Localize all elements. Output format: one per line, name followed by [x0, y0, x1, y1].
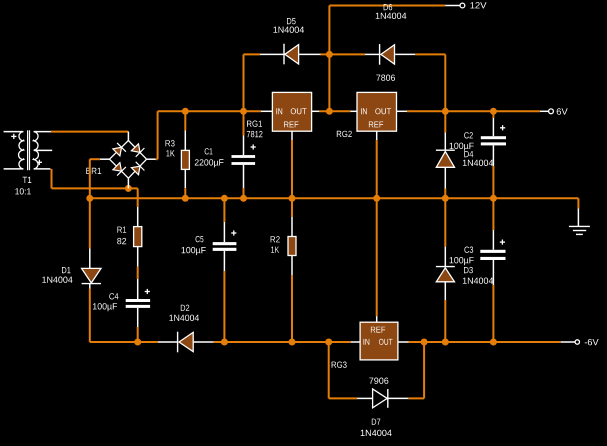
wire secondary bottom down	[51, 169, 53, 189]
wire D5 D6 line	[244, 53, 446, 55]
resistor R2 1K	[271, 198, 296, 342]
junction 12V column regulator rail	[326, 108, 333, 115]
capacitor C3 100uF	[450, 198, 506, 342]
wire negative rail right	[424, 341, 575, 343]
label T1	[23, 177, 32, 183]
wire D5 line left corner	[243, 54, 245, 111]
junction C5 bottom	[221, 339, 228, 346]
wire negative column down	[89, 159, 91, 198]
junction C1 top	[240, 108, 247, 115]
capacitor C2 100uF	[450, 111, 506, 198]
ground symbol	[569, 226, 590, 234]
wire ground rail	[90, 198, 579, 227]
junction negative column ground rail	[86, 195, 93, 202]
regulator RG3 7906	[360, 322, 398, 360]
diode D7 1N4004	[361, 389, 392, 436]
wire bridge right to corner	[156, 158, 158, 160]
junction C3 bottom	[490, 339, 497, 346]
diode D3 1N4004	[436, 198, 493, 342]
bridge rectifier BR1	[100, 132, 156, 189]
junction C4 bottom	[134, 339, 141, 346]
capacitor C5 100uF	[182, 198, 237, 342]
diode D5 1N4004	[273, 18, 304, 64]
regulator RG1 7812	[272, 92, 311, 131]
junction C1 bottom	[240, 195, 247, 202]
terminal -6V	[575, 339, 599, 345]
wire RG2 REF pin	[376, 131, 378, 198]
terminal 6V	[549, 108, 568, 114]
wire AC bottom horizontal	[52, 187, 138, 189]
wire RG3 out	[398, 341, 424, 343]
wire bridge left to negative column	[90, 158, 100, 160]
junction RG3 out D7 branch	[421, 339, 428, 346]
regulator RG2 7806	[357, 92, 397, 131]
junction R3 top	[182, 108, 189, 115]
terminal 12V	[460, 2, 487, 8]
junction 12V column on D5 line	[326, 51, 333, 58]
wire negative rail	[90, 341, 360, 343]
label BR1	[86, 168, 101, 174]
wire 12V line	[329, 5, 460, 7]
label 7806	[376, 75, 395, 81]
junction D3 bottom	[442, 339, 449, 346]
label RG1	[247, 121, 262, 127]
junction C5 top	[221, 195, 228, 202]
wire RG1 REF pin	[291, 131, 293, 198]
wire 12V column	[328, 6, 330, 112]
capacitor C4 100uF	[93, 279, 150, 342]
junction C2 top	[490, 108, 497, 115]
junction C2 bottom	[490, 195, 497, 202]
wire D7 branch right	[388, 342, 424, 398]
junction bridge bottom node	[125, 185, 132, 192]
junction RG1 REF rail	[289, 195, 296, 202]
resistor R3 1K	[166, 111, 190, 198]
diode D1 1N4004	[42, 198, 101, 342]
wire down to R1	[137, 188, 139, 226]
wire positive column up	[157, 111, 159, 159]
diode D2 1N4004	[169, 305, 199, 353]
wire secondary top to bridge	[51, 131, 128, 133]
wire REF rail to RG3	[376, 198, 378, 322]
wire D7 branch left	[329, 342, 373, 398]
wire D6 line right corner down	[444, 54, 446, 111]
T1 secondary top lead	[34, 131, 51, 133]
capacitor C1 2200uF	[195, 111, 256, 198]
T1 secondary bottom lead	[34, 168, 51, 170]
resistor R1 82	[117, 227, 142, 279]
label RG2	[337, 131, 352, 137]
label 7906	[369, 378, 388, 384]
T1 primary top lead	[4, 131, 24, 133]
label 7812	[247, 131, 263, 137]
T1 primary bottom lead	[4, 168, 24, 170]
junction R2 bottom	[289, 339, 296, 346]
junction RG2 REF rail	[373, 195, 380, 202]
junction RG3 in D7 branch	[325, 339, 332, 346]
wire RG1 out to RG2 in	[312, 110, 357, 112]
label 10:1	[15, 188, 30, 194]
wire RG2 out to 6V	[397, 110, 549, 112]
diode D6 1N4004	[376, 4, 407, 65]
transformer T1	[11, 130, 42, 170]
junction D4 bottom	[442, 195, 449, 202]
diode D4 1N4004	[436, 111, 493, 198]
label RG3	[332, 362, 347, 368]
wire regulator input rail	[158, 110, 273, 112]
junction R3 bottom	[182, 195, 189, 202]
junction 6V rail	[442, 108, 449, 115]
T1 secondary center-tap stub	[34, 149, 53, 151]
